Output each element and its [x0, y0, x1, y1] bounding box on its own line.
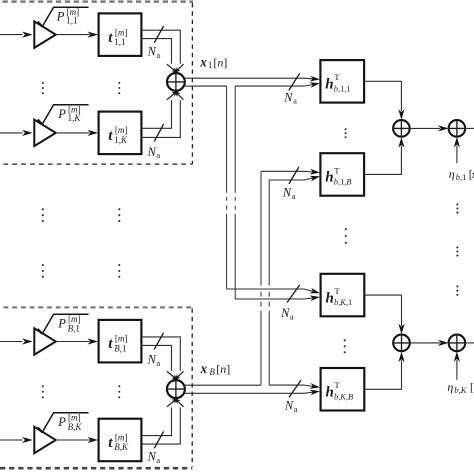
- svg-text:1,K: 1,K: [114, 135, 128, 145]
- wire x_1 vertical branch left (to h_b,K,1 upper): [226, 86, 228, 289]
- label N_a on h_b,1,1 input: [283, 90, 297, 105]
- svg-text:[n]: [n]: [216, 362, 230, 376]
- wire h_b,K,1 input lower with arrow: [235, 295, 320, 301]
- svg-text:N: N: [147, 45, 157, 59]
- svg-text:N: N: [147, 353, 157, 367]
- arrow into adder A2 bottom-left: [167, 398, 178, 407]
- label N_a on t_B,1 output: [147, 353, 161, 368]
- block precoder t[m]_1,K: [99, 112, 142, 155]
- wire x_B vertical branch left (to h_b,1,B upper): [260, 171, 262, 385]
- block precoder t[m]_1,1: [99, 13, 142, 56]
- dots below box1 left (more APs): [42, 208, 44, 222]
- wire adder A4 to adder A6 arrow: [410, 340, 449, 346]
- svg-text:η: η: [449, 167, 455, 181]
- wire t_1,1 output lower (to adder A1): [141, 39, 171, 64]
- wire noise eta_b,K into adder A6 arrow: [454, 351, 460, 379]
- svg-text:N: N: [284, 398, 294, 412]
- wire t_1,1 output upper (to adder A1): [141, 30, 180, 63]
- wire t_B,K output upper (to adder A2): [141, 407, 171, 435]
- label N_a on h_b,K,B input: [284, 398, 298, 413]
- dots between h_b,K,1 and h_b,K,B: [344, 339, 346, 353]
- wire h_b,K,1 output to adder A4: [364, 295, 404, 334]
- bus slash N_a on h_b,K,B input: [289, 380, 301, 397]
- svg-text:[m]: [m]: [115, 334, 128, 344]
- dashed box 2 bottom border: [0, 467, 192, 470]
- wire h_b,1,B output to adder A3: [364, 137, 404, 174]
- bus slash N_a on t_1,K output: [154, 124, 163, 142]
- svg-text:a: a: [156, 50, 160, 60]
- svg-text:P: P: [57, 107, 66, 121]
- adder A1 (sum to x_1): [166, 72, 185, 91]
- svg-text:h: h: [325, 170, 333, 186]
- dots right column third group (more users): [456, 285, 458, 296]
- wire s_B,1 input arrow: [0, 338, 33, 344]
- amplifier G3 sqrt(P[m]_B,1): [34, 328, 56, 354]
- svg-text:N: N: [283, 90, 293, 104]
- wire G3 to t_B,1 arrow: [56, 338, 98, 344]
- svg-text:a: a: [290, 311, 294, 321]
- dots between amplifiers G3,G4: [42, 385, 44, 398]
- dashed box 2 right border: [191, 309, 193, 468]
- dots above box2 left (more APs): [42, 264, 44, 278]
- svg-text:1,1: 1,1: [114, 37, 125, 47]
- wire h_b,K,B output to adder A4: [364, 352, 404, 390]
- bus slash N_a on t_B,1 output: [154, 333, 163, 350]
- svg-text:b,1,1: b,1,1: [334, 84, 351, 93]
- wire G2 to t_1,K arrow: [56, 130, 98, 136]
- svg-text:1: 1: [208, 60, 213, 70]
- wire x_1 rail upper (adder A1 to h_b,1,1) with arrow: [185, 76, 320, 82]
- dots between channel groups: [345, 228, 347, 244]
- dashed box 1 right border: [191, 3, 193, 164]
- block precoder t[m]_B,K: [99, 419, 142, 462]
- dots above eta_b,K (more users): [456, 246, 458, 256]
- arrow into adder A1 bottom-right: [174, 91, 183, 100]
- svg-text:a: a: [293, 96, 297, 106]
- svg-text:[: [: [470, 382, 474, 394]
- wire h_b,K,B input upper with arrow: [269, 383, 320, 389]
- svg-text:b,K,B: b,K,B: [334, 392, 353, 401]
- wire adder A5 output y_b,1: [465, 127, 474, 129]
- svg-text:N: N: [147, 145, 157, 159]
- svg-text:B,K: B,K: [68, 422, 83, 432]
- svg-text:b,K,1: b,K,1: [334, 298, 352, 307]
- svg-text:P: P: [57, 415, 66, 429]
- arrow into adder A2 bottom-right: [174, 398, 183, 407]
- wire x_1 branch line (to h_b,1,1 lower) with arrow: [235, 82, 320, 88]
- svg-text:a: a: [294, 404, 298, 414]
- wire G4 to t_B,K arrow: [56, 437, 98, 443]
- wire s_B,K input arrow: [0, 437, 33, 443]
- wire x_B rail upper (adder A2 to up-branch elbow): [185, 384, 261, 386]
- svg-text:N: N: [282, 186, 292, 200]
- svg-text:T: T: [334, 165, 340, 175]
- dots below box1 right (more APs): [118, 208, 120, 222]
- svg-text:[m]: [m]: [115, 125, 128, 135]
- svg-text:B,K: B,K: [114, 442, 129, 452]
- svg-text:a: a: [156, 150, 160, 160]
- label N_a on t_B,K output: [147, 450, 161, 465]
- wire G1 to t_1,1 arrow: [56, 32, 98, 38]
- svg-text:h: h: [326, 385, 334, 401]
- arrow into adder A1 bottom-left: [167, 91, 178, 100]
- svg-text:b,1,B: b,1,B: [334, 178, 352, 187]
- arrow into adder A2 top-right: [174, 371, 183, 380]
- svg-text:[m]: [m]: [115, 27, 128, 37]
- wire adder A3 to adder A5 arrow: [410, 125, 449, 131]
- svg-text:T: T: [334, 380, 340, 390]
- wire adder A6 output y_b,K: [465, 342, 474, 344]
- svg-text:x: x: [199, 54, 207, 69]
- bus slash N_a on h_b,K,1 input: [287, 285, 300, 303]
- svg-text:a: a: [292, 191, 296, 201]
- svg-text:h: h: [325, 77, 333, 93]
- block channel h_b,K,B: [321, 368, 365, 411]
- svg-text:N: N: [147, 450, 157, 464]
- label sqrt(P[m]_1,1) over amplifier G1: [38, 7, 89, 27]
- svg-text:T: T: [334, 72, 340, 82]
- svg-text:T: T: [334, 286, 340, 296]
- dots between h_b,1,1 and h_b,1,B: [345, 128, 347, 138]
- wire t_1,K output lower (to adder A1): [141, 100, 180, 137]
- wire h_b,K,1 input upper with arrow: [227, 288, 320, 294]
- adder A5 (noise addition, user 1): [448, 119, 466, 137]
- block channel h_b,1,B: [320, 153, 364, 196]
- arrow into adder A2 top-left: [167, 371, 178, 380]
- label sqrt(P[m]_B,K) over amplifier G4: [38, 412, 89, 432]
- wire x_B vertical branch right (to h_b,1,B lower): [268, 180, 270, 385]
- svg-text:[m]: [m]: [68, 412, 81, 422]
- dashed box 1 bottom border: [3, 163, 192, 165]
- adder A2 (sum to x_B): [166, 379, 186, 399]
- svg-text:b,K: b,K: [454, 385, 467, 395]
- svg-text:P: P: [57, 317, 66, 331]
- svg-text:a: a: [156, 358, 160, 368]
- svg-text:B,1: B,1: [114, 343, 126, 353]
- label sqrt(P[m]_1,K) over amplifier G2: [38, 104, 89, 124]
- wire x_1 rail lower (adder A1 to branch elbow): [185, 85, 227, 87]
- block channel h_b,K,1: [321, 274, 365, 317]
- bus slash N_a on h_b,1,1 input: [289, 73, 300, 90]
- bus slash N_a on t_B,K output: [154, 431, 163, 448]
- svg-text:b,1: b,1: [456, 172, 467, 182]
- node label x_B[n]: [200, 361, 231, 377]
- label eta_b,1[: [449, 167, 474, 182]
- svg-text:[n]: [n]: [213, 55, 227, 69]
- arrow into adder A1 top-right: [174, 64, 183, 73]
- arrow into adder A1 top-left: [167, 64, 178, 73]
- adder A4 (sum over B, user K): [392, 334, 410, 352]
- svg-text:1,K: 1,K: [68, 113, 82, 123]
- wire h_b,1,B input upper with arrow: [261, 169, 320, 175]
- wire x_B rail lower (adder A2 to h_b,K,B lower) with arrow: [185, 390, 320, 396]
- svg-text:η: η: [447, 380, 453, 394]
- amplifier G1 sqrt(P[m]_1,1): [34, 21, 56, 47]
- bus slash N_a on t_1,1 output: [154, 26, 163, 43]
- svg-text:a: a: [156, 455, 160, 465]
- wire s_1,K input arrow: [0, 130, 33, 136]
- label sqrt(P[m]_B,1) over amplifier G3: [38, 314, 89, 334]
- svg-text:B,1: B,1: [68, 324, 80, 334]
- svg-text:1,1: 1,1: [66, 15, 77, 25]
- svg-text:x: x: [200, 361, 208, 376]
- wire t_B,K output lower (to adder A2): [141, 407, 180, 444]
- wire s_1,1 input arrow: [0, 32, 33, 38]
- node label x_1[n]: [199, 54, 227, 69]
- wire t_B,1 output lower (to adder A2): [141, 345, 171, 370]
- adder A6 (noise addition, user K): [448, 334, 466, 352]
- wire x_1 vertical branch right (to h_b,K,1 lower): [234, 86, 236, 299]
- wire noise eta_b,1 into adder A5 arrow: [454, 137, 460, 163]
- svg-text:N: N: [280, 306, 290, 320]
- svg-text:h: h: [326, 290, 334, 306]
- adder A3 (sum over B, user 1): [392, 119, 410, 137]
- wire h_b,1,B input lower with arrow: [269, 176, 320, 182]
- dots above box2 right (more APs): [118, 264, 120, 278]
- label N_a on t_1,K output: [147, 145, 161, 160]
- bus slash N_a on h_b,1,B input: [289, 167, 299, 184]
- dots below eta_b,1 (more users): [456, 203, 458, 213]
- label eta_b,K: [447, 380, 474, 395]
- label N_a on h_b,K,1 input: [280, 306, 294, 321]
- dashed box 2 (AP b=B transmitter) top border: [4, 306, 193, 308]
- block precoder t[m]_B,1: [99, 320, 142, 363]
- dashed box 1 (AP b=1 transmitter) top border: [3, 0, 194, 3]
- wire h_b,1,1 output to adder A3: [364, 81, 404, 119]
- svg-text:[m]: [m]: [115, 432, 128, 442]
- dots between blocks t_B,1 and t_B,K: [118, 385, 120, 398]
- label N_a on t_1,1 output: [147, 45, 161, 60]
- block channel h_b,1,1: [320, 60, 364, 103]
- svg-text:B: B: [209, 367, 215, 377]
- amplifier G2 sqrt(P[m]_1,K): [34, 120, 56, 146]
- wire t_1,K output upper (to adder A1): [141, 100, 171, 128]
- amplifier G4 sqrt(P[m]_B,K): [34, 427, 56, 453]
- label N_a on h_b,1,B input: [282, 186, 296, 201]
- dots between blocks t_1,1 and t_1,K: [118, 82, 120, 94]
- dots between amplifiers G1,G2: [42, 82, 44, 94]
- wire t_B,1 output upper (to adder A2): [141, 337, 180, 371]
- svg-text:[m]: [m]: [68, 314, 81, 324]
- svg-text:P: P: [56, 9, 65, 23]
